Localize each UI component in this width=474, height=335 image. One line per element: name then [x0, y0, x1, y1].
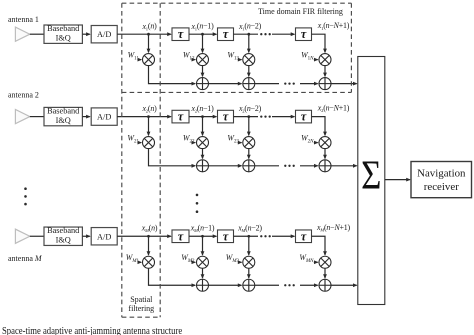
wire adder1 to adder2 row 1: [209, 83, 242, 85]
svg-text:Σ: Σ: [361, 153, 381, 198]
wire into adder N row 1: [300, 83, 318, 85]
adder 2 row 2: [243, 160, 255, 172]
dashed box spatial filtering left edge: [121, 3, 123, 317]
antenna 3 symbol: [15, 229, 29, 243]
antenna 2 symbol: [15, 110, 29, 124]
wire tap2 down to multiplier row 1: [202, 34, 204, 52]
multiplier row 3 tap 2: [197, 256, 209, 268]
wire weight arrow into multiplier 4 row 1: [314, 59, 318, 61]
wire weight arrow into multiplier 2 row 2: [194, 142, 196, 144]
wire weight arrow into multiplier 1 row 2: [139, 142, 141, 144]
adder 1 row 3: [197, 279, 209, 291]
svg-text:τ: τ: [223, 27, 229, 41]
wire weight arrow into multiplier 3 row 1: [239, 59, 241, 61]
wire tap1 down to multiplier row 2: [148, 117, 150, 136]
svg-text:τ: τ: [223, 229, 229, 243]
svg-text:receiver: receiver: [424, 181, 459, 193]
delay tau2 row 3: [218, 230, 234, 243]
multiplier row 2 tap 2: [197, 137, 209, 149]
dashed box FIR filtering right edge: [350, 3, 352, 92]
svg-text:Baseband: Baseband: [47, 226, 80, 235]
multiplier row 3 tap 1: [143, 256, 155, 268]
adder 1 row 1: [197, 78, 209, 90]
wire tap1 down to multiplier row 1: [148, 34, 150, 52]
wire weight arrow into multiplier 1 row 1: [139, 59, 141, 61]
svg-text:x1(n−1): x1(n−1): [190, 22, 214, 32]
ellipsis delay chain row 1: [260, 33, 271, 35]
wire weight arrow into multiplier 3 row 3: [239, 261, 241, 263]
svg-text:x1(n): x1(n): [141, 22, 157, 32]
node x2(n-1) tap row 2: [201, 115, 204, 118]
wire weight arrow into multiplier 4 row 3: [314, 261, 318, 263]
node x1(n) tap row 1: [147, 33, 150, 36]
wire adder1 to adder2 row 3: [209, 284, 242, 286]
svg-text:xM(n): xM(n): [141, 224, 158, 234]
multiplier row 3 tap 3: [243, 256, 255, 268]
wire A/D output row 1: [117, 33, 171, 35]
wire tau2 output row 1: [234, 33, 259, 35]
wire tau2 output row 2: [234, 116, 259, 118]
wire tauN output to last multiplier row 3: [312, 236, 326, 255]
multiplier row 1 tap 3: [243, 54, 255, 66]
svg-text:A/D: A/D: [97, 113, 111, 122]
summer block Sigma: [358, 57, 385, 305]
adder 1 row 2: [197, 160, 209, 172]
svg-text:Baseband: Baseband: [47, 24, 80, 33]
svg-text:x2(n−2): x2(n−2): [238, 104, 262, 114]
ellipsis delay chain row 3: [260, 235, 271, 237]
svg-text:Time domain FIR filtering: Time domain FIR filtering: [258, 7, 343, 16]
wire to tauN row 2: [272, 116, 294, 118]
dashed box spatial filtering right edge: [159, 3, 161, 317]
wire multiplier3 output down to adder row 3: [248, 268, 250, 277]
multiplier row 2 tap 1: [143, 137, 155, 149]
vertical ellipsis antennas: [24, 187, 27, 205]
delay tau1 row 3: [172, 230, 189, 243]
wire baseband to A/D row 3: [82, 235, 89, 237]
delay tau2 row 2: [218, 110, 234, 123]
wire baseband to A/D row 1: [82, 33, 89, 35]
adder 2 row 3: [243, 279, 255, 291]
svg-text:antenna 2: antenna 2: [8, 90, 39, 99]
node x2(n-2) tap row 2: [247, 115, 250, 118]
wire multiplier4 output down to adder row 2: [324, 149, 326, 159]
vertical ellipsis taps: [196, 194, 199, 213]
svg-text:A/D: A/D: [97, 30, 111, 39]
wire into adder N row 3: [300, 284, 318, 286]
wire A/D output row 2: [117, 116, 171, 118]
wire tauN output to last multiplier row 1: [312, 34, 326, 52]
wire into adder N row 2: [300, 165, 318, 167]
node xM(n-2) tap row 3: [247, 235, 250, 238]
wire multiplier1 output to adder1 row 3: [149, 268, 196, 285]
node x2(n) tap row 2: [147, 115, 150, 118]
multiplier row 1 tap 2: [197, 54, 209, 66]
wire tap3 down to multiplier row 2: [248, 117, 250, 136]
svg-text:τ: τ: [178, 229, 184, 243]
wire multiplier3 output down to adder row 1: [248, 66, 250, 76]
delay tau1 row 2: [172, 110, 189, 123]
wire tau1 to tau2 row 3: [189, 235, 216, 237]
svg-text:x2(n): x2(n): [141, 104, 157, 114]
wire tap2 down to multiplier row 2: [202, 117, 204, 136]
adder N row 3: [319, 279, 331, 291]
svg-text:I&Q: I&Q: [56, 116, 71, 125]
delay tauN row 3: [296, 230, 312, 243]
svg-text:filtering: filtering: [128, 304, 154, 313]
node x1(n-1) tap row 1: [201, 33, 204, 36]
multiplier row 2 tap 3: [243, 137, 255, 149]
svg-text:Space-time adaptive anti-jammi: Space-time adaptive anti-jamming antenna…: [2, 325, 182, 335]
wire weight arrow into multiplier 2 row 3: [194, 261, 196, 263]
wire adder N to summer row 1: [331, 83, 356, 85]
wire tauN output to last multiplier row 2: [312, 117, 326, 136]
ellipsis adder chain row 2: [284, 165, 295, 167]
multiplier row 1 tap 1: [143, 54, 155, 66]
wire multiplier2 output down to adder row 1: [202, 66, 204, 76]
svg-text:I&Q: I&Q: [56, 236, 71, 245]
A/D converter row 2: [91, 108, 117, 125]
Baseband I&amp;Q block row 3: [44, 227, 82, 245]
svg-text:τ: τ: [178, 110, 184, 124]
A/D converter row 3: [91, 228, 117, 245]
wire multiplier3 output down to adder row 2: [248, 149, 250, 159]
multiplier row 2 tap 4: [319, 137, 331, 149]
wire tap1 down to multiplier row 3: [148, 236, 150, 255]
wire tap3 down to multiplier row 1: [248, 34, 250, 52]
wire A/D output row 3: [117, 235, 171, 237]
wire tap3 down to multiplier row 3: [248, 236, 250, 255]
svg-text:A/D: A/D: [97, 232, 111, 241]
wire multiplier4 output down to adder row 1: [324, 66, 326, 76]
wire weight arrow into multiplier 3 row 2: [239, 142, 241, 144]
wire adder2 out row 2: [255, 165, 279, 167]
svg-text:τ: τ: [301, 27, 307, 41]
wire weight arrow into multiplier 2 row 1: [194, 59, 196, 61]
delay tau1 row 1: [172, 28, 189, 41]
wire adder1 to adder2 row 2: [209, 165, 242, 167]
svg-text:Spatial: Spatial: [130, 295, 153, 304]
svg-text:Baseband: Baseband: [47, 106, 80, 115]
ellipsis adder chain row 1: [284, 82, 295, 84]
dashed box FIR filtering bottom edge: [122, 91, 352, 93]
delay tau2 row 1: [218, 28, 234, 41]
antenna 1 symbol: [15, 27, 29, 41]
svg-text:xM(n−2): xM(n−2): [237, 224, 262, 234]
svg-text:x1(n−2): x1(n−2): [238, 22, 262, 32]
delay tauN row 1: [296, 28, 312, 41]
svg-text:antenna 1: antenna 1: [8, 15, 39, 24]
wire summer to navigation receiver: [385, 179, 410, 181]
svg-text:τ: τ: [301, 110, 307, 124]
node xM(n) tap row 3: [147, 235, 150, 238]
wire multiplier2 output down to adder row 2: [202, 149, 204, 159]
svg-text:τ: τ: [223, 110, 229, 124]
wire tau1 to tau2 row 1: [189, 33, 216, 35]
wire multiplier2 output down to adder row 3: [202, 268, 204, 277]
wire tau2 output row 3: [234, 235, 259, 237]
wire multiplier4 output down to adder row 3: [324, 268, 326, 277]
svg-text:antenna M: antenna M: [8, 254, 43, 263]
A/D converter row 1: [91, 26, 117, 43]
wire multiplier1 output to adder1 row 1: [149, 66, 196, 84]
node x1(n-2) tap row 1: [247, 33, 250, 36]
wire multiplier1 output to adder1 row 2: [149, 149, 196, 166]
wire baseband to A/D row 2: [82, 116, 89, 118]
adder N row 1: [319, 78, 331, 90]
Navigation receiver block: [411, 162, 472, 198]
wire weight arrow into multiplier 4 row 2: [314, 142, 318, 144]
Baseband I&amp;Q block row 1: [44, 25, 82, 43]
node xM(n-1) tap row 3: [201, 235, 204, 238]
delay tauN row 2: [296, 110, 312, 123]
dashed box top edge: [122, 2, 352, 4]
svg-text:τ: τ: [301, 229, 307, 243]
dashed box spatial filtering bottom edge: [122, 316, 160, 318]
wire tap2 down to multiplier row 3: [202, 236, 204, 255]
wire antenna1 to baseband: [30, 33, 44, 35]
svg-text:xM(n−1): xM(n−1): [190, 224, 215, 234]
adder N row 2: [319, 160, 331, 172]
wire adder N to summer row 2: [331, 165, 356, 167]
multiplier row 3 tap 4: [319, 256, 331, 268]
svg-text:x2(n−1): x2(n−1): [190, 104, 214, 114]
wire weight arrow into multiplier 1 row 3: [139, 261, 141, 263]
svg-text:I&Q: I&Q: [56, 34, 71, 43]
wire adder2 out row 1: [255, 83, 279, 85]
multiplier row 1 tap 4: [319, 54, 331, 66]
ellipsis delay chain row 2: [260, 115, 271, 117]
wire to tauN row 3: [272, 235, 294, 237]
adder 2 row 1: [243, 78, 255, 90]
svg-text:Navigation: Navigation: [417, 167, 466, 179]
svg-text:τ: τ: [178, 27, 184, 41]
wire adder N to summer row 3: [331, 284, 356, 286]
Baseband I&amp;Q block row 2: [44, 107, 82, 125]
wire adder2 out row 3: [255, 284, 279, 286]
wire tau1 to tau2 row 2: [189, 116, 216, 118]
wire antenna3 to baseband: [30, 235, 44, 237]
wire to tauN row 1: [272, 33, 294, 35]
wire antenna2 to baseband: [30, 116, 44, 118]
ellipsis adder chain row 3: [284, 284, 295, 286]
